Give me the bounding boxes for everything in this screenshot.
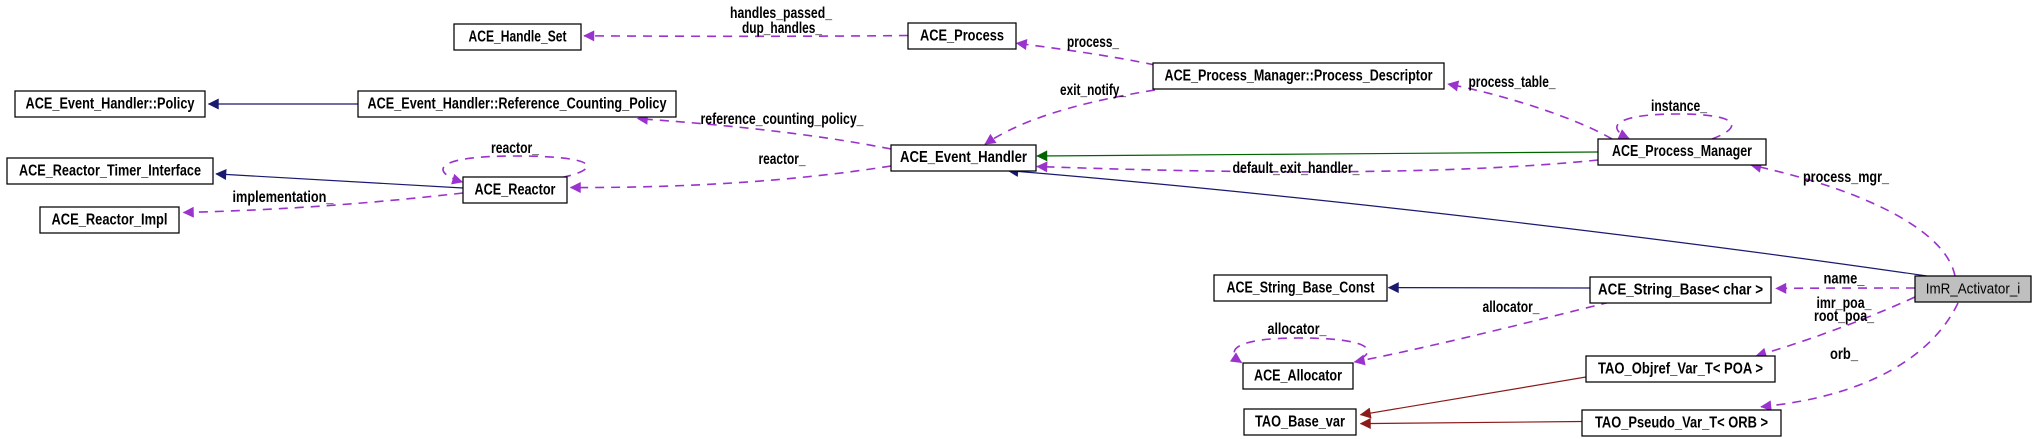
wire default_exit_handler_ (ACE_Process_Manager to ACE_Event_Handler) xyxy=(1037,160,1598,177)
node TAO_Objref_Var_T&lt;POA&gt; xyxy=(1586,356,1775,382)
svg-text:exit_notify_: exit_notify_ xyxy=(1060,82,1127,99)
wire inheritance ACE_Reactor to ACE_Reactor_Timer_Interface xyxy=(216,174,463,188)
svg-text:ACE_Process: ACE_Process xyxy=(920,28,1004,45)
node ACE_Process_Manager::Process_Descriptor xyxy=(1153,63,1444,89)
node ACE_Process_Manager xyxy=(1598,139,1766,165)
wire inheritance ACE_String_Base&lt;char&gt; to ACE_String_Base_Const xyxy=(1389,287,1591,289)
node ACE_Event_Handler::Reference_Counting_Policy xyxy=(358,91,676,117)
node ACE_Event_Handler xyxy=(891,145,1036,171)
wire instance_ self-loop on ACE_Process_Manager xyxy=(1617,98,1732,139)
svg-text:ACE_String_Base_Const: ACE_String_Base_Const xyxy=(1227,280,1376,297)
svg-text:ACE_Process_Manager: ACE_Process_Manager xyxy=(1612,143,1752,160)
svg-text:process_table_: process_table_ xyxy=(1469,74,1557,91)
svg-text:ACE_Allocator: ACE_Allocator xyxy=(1254,368,1342,385)
wire exit_notify_ (Process_Descriptor to ACE_Event_Handler) xyxy=(985,82,1155,144)
wire inheritance Reference_Counting_Policy to ACE_Event_Handler::Policy xyxy=(209,103,359,105)
svg-text:ACE_String_Base< char >: ACE_String_Base< char > xyxy=(1598,282,1763,299)
svg-text:process_: process_ xyxy=(1067,34,1120,51)
wire implementation_ (ACE_Reactor to ACE_Reactor_Impl) xyxy=(184,189,464,213)
node ACE_Reactor xyxy=(463,177,567,203)
node ACE_Allocator xyxy=(1243,363,1353,389)
node ACE_Reactor_Impl xyxy=(40,207,179,233)
svg-text:TAO_Pseudo_Var_T< ORB >: TAO_Pseudo_Var_T< ORB > xyxy=(1595,415,1768,432)
node ACE_Reactor_Timer_Interface xyxy=(7,158,213,184)
node TAO_Base_var xyxy=(1244,409,1356,435)
svg-text:ACE_Reactor_Impl: ACE_Reactor_Impl xyxy=(52,212,168,229)
node ACE_String_Base_Const xyxy=(1214,275,1387,301)
wire imr_poa_/root_poa_ (ImR_Activator_i to TAO_Objref_Var_T&lt;POA&gt;) xyxy=(1756,295,1915,356)
svg-text:ImR_Activator_i: ImR_Activator_i xyxy=(1926,282,2021,298)
wire allocator_ self-loop on ACE_Allocator xyxy=(1234,321,1368,363)
svg-text:default_exit_handler_: default_exit_handler_ xyxy=(1233,160,1361,177)
node ImR_Activator_i (gray) xyxy=(1915,276,2031,302)
wire inheritance TAO_Objref_Var_T&lt;POA&gt; to TAO_Base_var (dark red) xyxy=(1361,377,1587,415)
svg-text:TAO_Objref_Var_T< POA >: TAO_Objref_Var_T< POA > xyxy=(1598,361,1763,378)
wire process_ (Process_Descriptor to ACE_Process) xyxy=(1017,34,1156,65)
wire reactor_ (ACE_Event_Handler to ACE_Reactor) xyxy=(571,151,892,188)
svg-text:ACE_Event_Handler: ACE_Event_Handler xyxy=(900,149,1027,166)
svg-text:reactor_: reactor_ xyxy=(491,140,540,157)
wire name_ (ImR_Activator_i to ACE_String_Base&lt;char&gt;) xyxy=(1776,271,1915,289)
node ACE_String_Base&lt;char&gt; xyxy=(1590,277,1771,303)
svg-text:allocator_: allocator_ xyxy=(1483,299,1541,316)
svg-text:instance_: instance_ xyxy=(1651,98,1708,115)
wire reactor_ self-loop on ACE_Reactor xyxy=(443,140,587,182)
svg-text:orb_: orb_ xyxy=(1830,346,1859,363)
svg-text:reactor_: reactor_ xyxy=(759,151,807,168)
wire inheritance ImR_Activator_i to ACE_Event_Handler (navy) xyxy=(1008,171,1927,276)
wire inheritance ACE_Process_Manager to ACE_Event_Handler (green) xyxy=(1037,152,1598,156)
wire allocator_ (ACE_String_Base&lt;char&gt; to ACE_Allocator) xyxy=(1355,299,1611,362)
wire process_mgr_ (ImR_Activator_i to ACE_Process_Manager) xyxy=(1751,165,1955,276)
svg-text:ACE_Process_Manager::Process_D: ACE_Process_Manager::Process_Descriptor xyxy=(1165,68,1433,85)
wire orb_ (ImR_Activator_i to TAO_Pseudo_Var_T&lt;ORB&gt;) xyxy=(1761,303,1958,407)
wire process_table_ (ACE_Process_Manager to Process_Descriptor) xyxy=(1448,74,1612,139)
wire handles_passed_/dup_handles_ (ACE_Process to ACE_Handle_Set) xyxy=(584,5,908,37)
node ACE_Event_Handler::Policy xyxy=(15,91,205,117)
svg-text:ACE_Event_Handler::Policy: ACE_Event_Handler::Policy xyxy=(26,96,195,113)
svg-text:root_poa_: root_poa_ xyxy=(1814,308,1875,325)
svg-text:ACE_Reactor_Timer_Interface: ACE_Reactor_Timer_Interface xyxy=(19,163,201,180)
node ACE_Process xyxy=(908,23,1016,49)
node ACE_Handle_Set xyxy=(454,24,581,50)
node TAO_Pseudo_Var_T&lt;ORB&gt; xyxy=(1582,410,1781,436)
wire inheritance TAO_Pseudo_Var_T&lt;ORB&gt; to TAO_Base_var (dark red) xyxy=(1361,422,1583,424)
svg-text:dup_handles_: dup_handles_ xyxy=(742,20,823,37)
svg-text:reference_counting_policy_: reference_counting_policy_ xyxy=(701,111,865,128)
svg-text:process_mgr_: process_mgr_ xyxy=(1803,169,1890,186)
svg-text:ACE_Reactor: ACE_Reactor xyxy=(475,182,556,199)
wire reference_counting_policy_ (ACE_Event_Handler to Reference_Counting_Policy) xyxy=(638,111,892,149)
svg-text:name_: name_ xyxy=(1824,271,1866,288)
svg-text:ACE_Event_Handler::Reference_C: ACE_Event_Handler::Reference_Counting_Po… xyxy=(368,96,667,113)
svg-text:allocator_: allocator_ xyxy=(1268,321,1328,338)
svg-text:implementation_: implementation_ xyxy=(233,189,335,206)
svg-text:TAO_Base_var: TAO_Base_var xyxy=(1255,414,1345,431)
svg-text:ACE_Handle_Set: ACE_Handle_Set xyxy=(469,29,568,46)
